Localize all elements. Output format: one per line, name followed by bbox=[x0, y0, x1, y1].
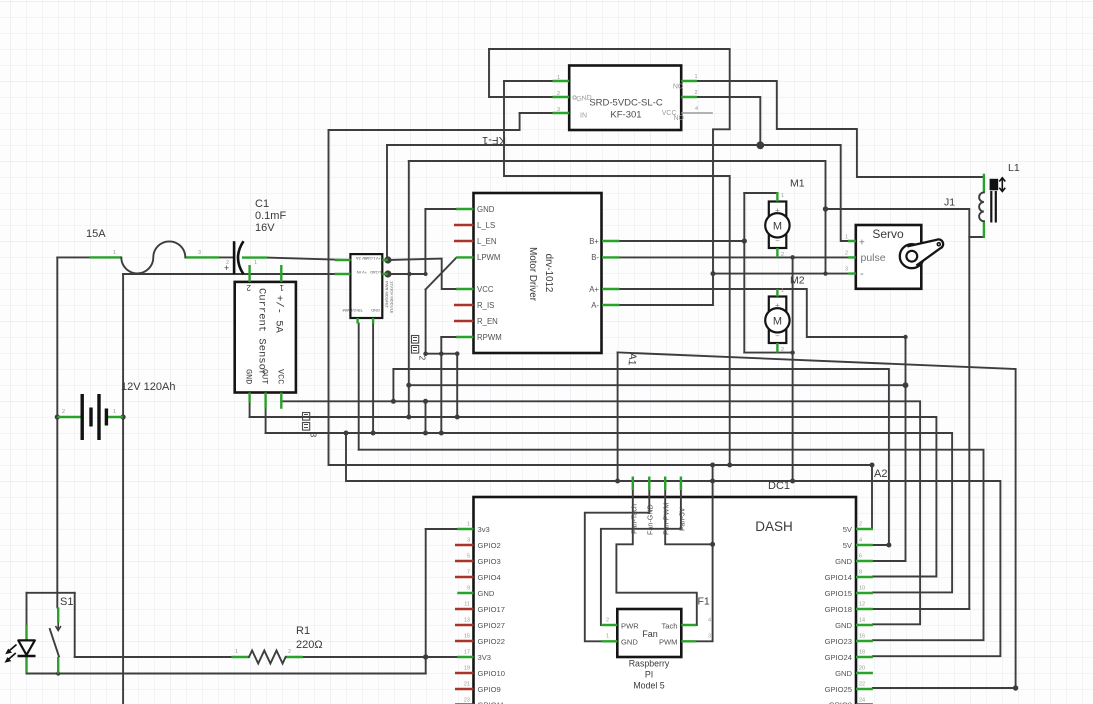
svg-text:3: 3 bbox=[845, 267, 848, 273]
svg-text:-: - bbox=[860, 268, 864, 280]
svg-text:Model 5: Model 5 bbox=[633, 681, 664, 691]
svg-text:SRD-5VDC-SL-C: SRD-5VDC-SL-C bbox=[589, 98, 663, 109]
svg-text:1: 1 bbox=[845, 235, 848, 241]
svg-text:OUT: OUT bbox=[260, 369, 270, 384]
svg-text:1: 1 bbox=[606, 634, 609, 640]
svg-text:A-: A- bbox=[591, 301, 599, 310]
svg-text:Fan-Tach: Fan-Tach bbox=[630, 504, 639, 534]
svg-text:15: 15 bbox=[464, 634, 470, 640]
svg-text:12: 12 bbox=[859, 602, 865, 608]
svg-text:23: 23 bbox=[464, 698, 470, 704]
svg-text:3: 3 bbox=[198, 250, 201, 256]
svg-text:1: 1 bbox=[279, 283, 284, 292]
svg-text:A2: A2 bbox=[874, 468, 887, 480]
svg-text:1: 1 bbox=[113, 250, 116, 256]
svg-text:drv-1012: drv-1012 bbox=[543, 254, 554, 293]
svg-text:M2: M2 bbox=[790, 275, 805, 287]
svg-text:Tach: Tach bbox=[661, 621, 677, 630]
svg-text:GPIO4: GPIO4 bbox=[478, 573, 501, 582]
svg-text:GPIO25: GPIO25 bbox=[825, 685, 852, 694]
svg-text:19: 19 bbox=[464, 666, 470, 672]
svg-text:+: + bbox=[775, 301, 780, 310]
svg-text:PWR MOSFET: PWR MOSFET bbox=[385, 281, 390, 309]
svg-text:NC: NC bbox=[673, 84, 683, 91]
svg-text:−: − bbox=[775, 237, 780, 246]
svg-text:14: 14 bbox=[859, 618, 865, 624]
svg-text:Current Sensor: Current Sensor bbox=[256, 288, 268, 376]
svg-text:3v3: 3v3 bbox=[478, 525, 490, 534]
svg-text:C1: C1 bbox=[255, 198, 269, 210]
svg-text:3: 3 bbox=[467, 538, 470, 544]
svg-text:1: 1 bbox=[467, 522, 470, 528]
svg-text:GPIO9: GPIO9 bbox=[478, 685, 501, 694]
svg-text:B+: B+ bbox=[589, 237, 599, 246]
svg-text:PI: PI bbox=[645, 670, 653, 680]
svg-text:220Ω: 220Ω bbox=[296, 639, 323, 651]
svg-text:3V3: 3V3 bbox=[478, 653, 492, 662]
svg-text:VCC: VCC bbox=[276, 369, 286, 384]
svg-text:A1: A1 bbox=[626, 352, 639, 366]
svg-text:pulse: pulse bbox=[861, 252, 886, 264]
svg-text:2: 2 bbox=[781, 347, 784, 353]
svg-text:1: 1 bbox=[557, 75, 560, 81]
svg-text:GPIO18: GPIO18 bbox=[825, 605, 852, 614]
svg-text:11: 11 bbox=[464, 602, 470, 608]
svg-text:GPIO23: GPIO23 bbox=[825, 637, 852, 646]
svg-text:3: 3 bbox=[557, 107, 560, 113]
svg-text:21: 21 bbox=[464, 682, 470, 688]
svg-text:+: + bbox=[775, 206, 780, 215]
svg-text:2: 2 bbox=[859, 522, 862, 528]
svg-text:1: 1 bbox=[781, 193, 784, 199]
svg-text:DASH: DASH bbox=[755, 519, 793, 534]
svg-text:12V 120Ah: 12V 120Ah bbox=[121, 381, 175, 393]
svg-text:PWM: PWM bbox=[659, 638, 678, 647]
svg-text:+/- 5A: +/- 5A bbox=[273, 295, 285, 334]
svg-text:Fan-PWM: Fan-PWM bbox=[662, 503, 671, 535]
svg-text:2: 2 bbox=[557, 91, 560, 97]
svg-text:3: 3 bbox=[309, 433, 319, 438]
svg-text:18: 18 bbox=[859, 650, 865, 656]
svg-text:2: 2 bbox=[781, 252, 784, 258]
svg-text:M: M bbox=[773, 221, 782, 233]
svg-text:Fan-5V: Fan-5V bbox=[678, 507, 687, 531]
svg-text:DC1: DC1 bbox=[768, 480, 790, 492]
svg-text:2: 2 bbox=[288, 649, 291, 655]
svg-text:12V30V MODULE: 12V30V MODULE bbox=[390, 281, 395, 314]
svg-text:GPIO3: GPIO3 bbox=[478, 557, 501, 566]
svg-text:9: 9 bbox=[467, 586, 470, 592]
svg-text:IN: IN bbox=[580, 113, 587, 120]
svg-text:6: 6 bbox=[859, 554, 862, 560]
svg-text:LPWM: LPWM bbox=[477, 253, 500, 262]
svg-text:R_IS: R_IS bbox=[477, 301, 494, 310]
svg-text:13: 13 bbox=[464, 618, 470, 624]
svg-text:5V: 5V bbox=[843, 541, 853, 550]
svg-text:GND: GND bbox=[371, 308, 380, 313]
svg-text:+V LOAD: +V LOAD bbox=[364, 256, 381, 261]
svg-text:L1: L1 bbox=[1008, 162, 1020, 174]
svg-text:17: 17 bbox=[464, 650, 470, 656]
svg-text:GND: GND bbox=[835, 621, 852, 630]
svg-text:L_EN: L_EN bbox=[477, 237, 497, 246]
svg-text:J1: J1 bbox=[944, 197, 955, 209]
svg-text:LOAD: LOAD bbox=[370, 270, 381, 275]
svg-text:10: 10 bbox=[859, 586, 865, 592]
svg-text:GPIO8: GPIO8 bbox=[829, 701, 852, 704]
svg-text:RPWM: RPWM bbox=[477, 333, 502, 342]
svg-text:NO: NO bbox=[674, 115, 685, 122]
svg-text:KF-1: KF-1 bbox=[482, 134, 506, 146]
svg-text:GND: GND bbox=[835, 669, 852, 678]
svg-text:4: 4 bbox=[695, 106, 698, 112]
svg-text:2: 2 bbox=[695, 90, 698, 96]
svg-text:15A: 15A bbox=[86, 228, 106, 240]
svg-text:1: 1 bbox=[254, 260, 257, 266]
svg-text:S1: S1 bbox=[60, 596, 73, 608]
svg-text:PWR: PWR bbox=[621, 621, 639, 630]
svg-text:M: M bbox=[773, 316, 782, 328]
svg-text:1: 1 bbox=[695, 74, 698, 80]
svg-text:5V: 5V bbox=[843, 525, 853, 534]
svg-text:GND: GND bbox=[244, 369, 254, 384]
svg-text:GPIO2: GPIO2 bbox=[478, 541, 501, 550]
svg-text:GPIO24: GPIO24 bbox=[825, 653, 852, 662]
svg-text:16: 16 bbox=[859, 634, 865, 640]
svg-text:TRIG/PWM: TRIG/PWM bbox=[343, 308, 363, 313]
svg-text:1: 1 bbox=[113, 409, 116, 415]
svg-text:2: 2 bbox=[418, 356, 428, 361]
svg-text:Fan: Fan bbox=[642, 629, 658, 639]
svg-text:GPIO27: GPIO27 bbox=[478, 621, 505, 630]
svg-text:GPIO14: GPIO14 bbox=[825, 573, 852, 582]
svg-text:GPIO11: GPIO11 bbox=[478, 701, 505, 704]
svg-text:3: 3 bbox=[708, 634, 711, 640]
svg-text:GPIO10: GPIO10 bbox=[478, 669, 505, 678]
svg-text:5: 5 bbox=[467, 554, 470, 560]
svg-text:4: 4 bbox=[859, 538, 862, 544]
svg-text:Fan-GND: Fan-GND bbox=[646, 504, 655, 535]
svg-text:GND: GND bbox=[835, 557, 852, 566]
svg-text:1: 1 bbox=[781, 288, 784, 294]
svg-text:GPIO22: GPIO22 bbox=[478, 637, 505, 646]
svg-text:GPIO17: GPIO17 bbox=[478, 605, 505, 614]
svg-text:R1: R1 bbox=[296, 625, 310, 637]
svg-text:KF-301: KF-301 bbox=[610, 110, 641, 121]
svg-text:+: + bbox=[859, 238, 865, 249]
svg-text:7: 7 bbox=[467, 570, 470, 576]
svg-text:R_EN: R_EN bbox=[477, 317, 498, 326]
svg-text:22: 22 bbox=[859, 682, 865, 688]
svg-text:0.1mF: 0.1mF bbox=[255, 210, 286, 222]
svg-text:1: 1 bbox=[235, 649, 238, 655]
svg-text:2: 2 bbox=[226, 260, 229, 266]
svg-text:F1: F1 bbox=[698, 596, 710, 608]
svg-text:2: 2 bbox=[62, 409, 65, 415]
svg-text:24: 24 bbox=[859, 698, 865, 704]
svg-text:16V: 16V bbox=[255, 222, 275, 234]
svg-text:GPIO15: GPIO15 bbox=[825, 589, 852, 598]
svg-text:2: 2 bbox=[246, 283, 251, 292]
svg-text:8: 8 bbox=[859, 570, 862, 576]
svg-text:GND: GND bbox=[478, 589, 495, 598]
svg-text:GND: GND bbox=[477, 205, 495, 214]
svg-text:M1: M1 bbox=[790, 178, 805, 190]
svg-text:B-: B- bbox=[591, 253, 599, 262]
svg-text:GND: GND bbox=[621, 638, 638, 647]
svg-text:2: 2 bbox=[606, 618, 609, 624]
svg-text:Servo: Servo bbox=[872, 227, 904, 241]
svg-text:+V IN: +V IN bbox=[357, 270, 367, 275]
svg-text:VCC: VCC bbox=[477, 285, 494, 294]
svg-text:Motor Driver: Motor Driver bbox=[527, 247, 538, 302]
svg-text:4: 4 bbox=[708, 618, 711, 624]
svg-text:−: − bbox=[775, 332, 780, 341]
svg-text:L_LS: L_LS bbox=[477, 221, 495, 230]
svg-text:A+: A+ bbox=[589, 285, 599, 294]
svg-text:Raspberry: Raspberry bbox=[629, 659, 670, 669]
svg-text:2: 2 bbox=[845, 251, 848, 257]
svg-text:20: 20 bbox=[859, 666, 865, 672]
